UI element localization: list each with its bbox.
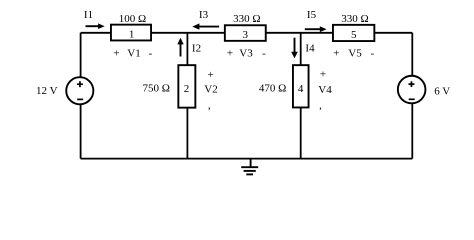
current arrow I5 [305,26,327,32]
voltage source VS2 plus sign [409,81,415,87]
voltage source VS2 minus sign [409,98,415,100]
svg-text:+: + [227,47,233,59]
wire left rail [80,33,82,159]
svg-text:+: + [320,69,326,81]
resistor R3 body 330 ohm [225,25,266,41]
wire top rail [81,32,413,34]
current arrow I1 [86,23,105,29]
svg-text:+: + [207,69,213,81]
resistor R5 body 330 ohm [333,25,374,41]
wire bottom rail [81,158,413,160]
wire right rail [411,33,413,159]
resistor R1 body 100 ohm [111,25,151,41]
svg-text:V2: V2 [204,84,217,96]
svg-text:+: + [113,47,119,59]
svg-text:-: - [262,47,266,59]
svg-text:,: , [208,100,211,112]
svg-text:V1: V1 [127,47,140,59]
current arrow I4 [291,38,298,59]
svg-text:V4: V4 [318,84,332,96]
ground symbol [241,159,258,175]
current arrow I3 [192,23,219,29]
svg-text:6 V: 6 V [434,85,450,97]
svg-text:2: 2 [184,83,190,95]
svg-text:5: 5 [351,29,357,41]
svg-text:470 Ω: 470 Ω [259,83,286,95]
svg-text:4: 4 [298,83,304,95]
svg-text:1: 1 [129,28,135,40]
voltage source VS2 6V body [398,76,426,104]
svg-text:I4: I4 [305,43,315,55]
svg-text:I2: I2 [192,43,201,55]
svg-text:I1: I1 [84,9,93,21]
svg-text:100 Ω: 100 Ω [119,13,146,25]
wire right branch through R4 [300,33,302,159]
voltage source VS1 minus sign [77,98,83,100]
voltage source VS1 plus sign [77,81,83,87]
svg-text:V5: V5 [348,47,362,59]
current arrow I2 [177,38,183,57]
svg-text:I3: I3 [199,9,209,21]
wire middle branch through R2 [186,33,188,159]
svg-text:12 V: 12 V [36,85,58,97]
svg-text:330 Ω: 330 Ω [233,13,260,25]
svg-text:330 Ω: 330 Ω [341,13,368,25]
svg-text:,: , [319,100,322,112]
voltage source VS1 12V body [66,77,93,104]
svg-text:-: - [148,47,152,59]
svg-text:3: 3 [243,29,249,41]
resistor R2 body 750 ohm [178,65,195,108]
svg-text:I5: I5 [307,9,317,21]
svg-text:-: - [371,47,375,59]
svg-text:V3: V3 [239,47,253,59]
svg-text:+: + [333,47,339,59]
resistor R4 body 470 ohm [293,65,309,107]
svg-text:750 Ω: 750 Ω [142,82,169,94]
